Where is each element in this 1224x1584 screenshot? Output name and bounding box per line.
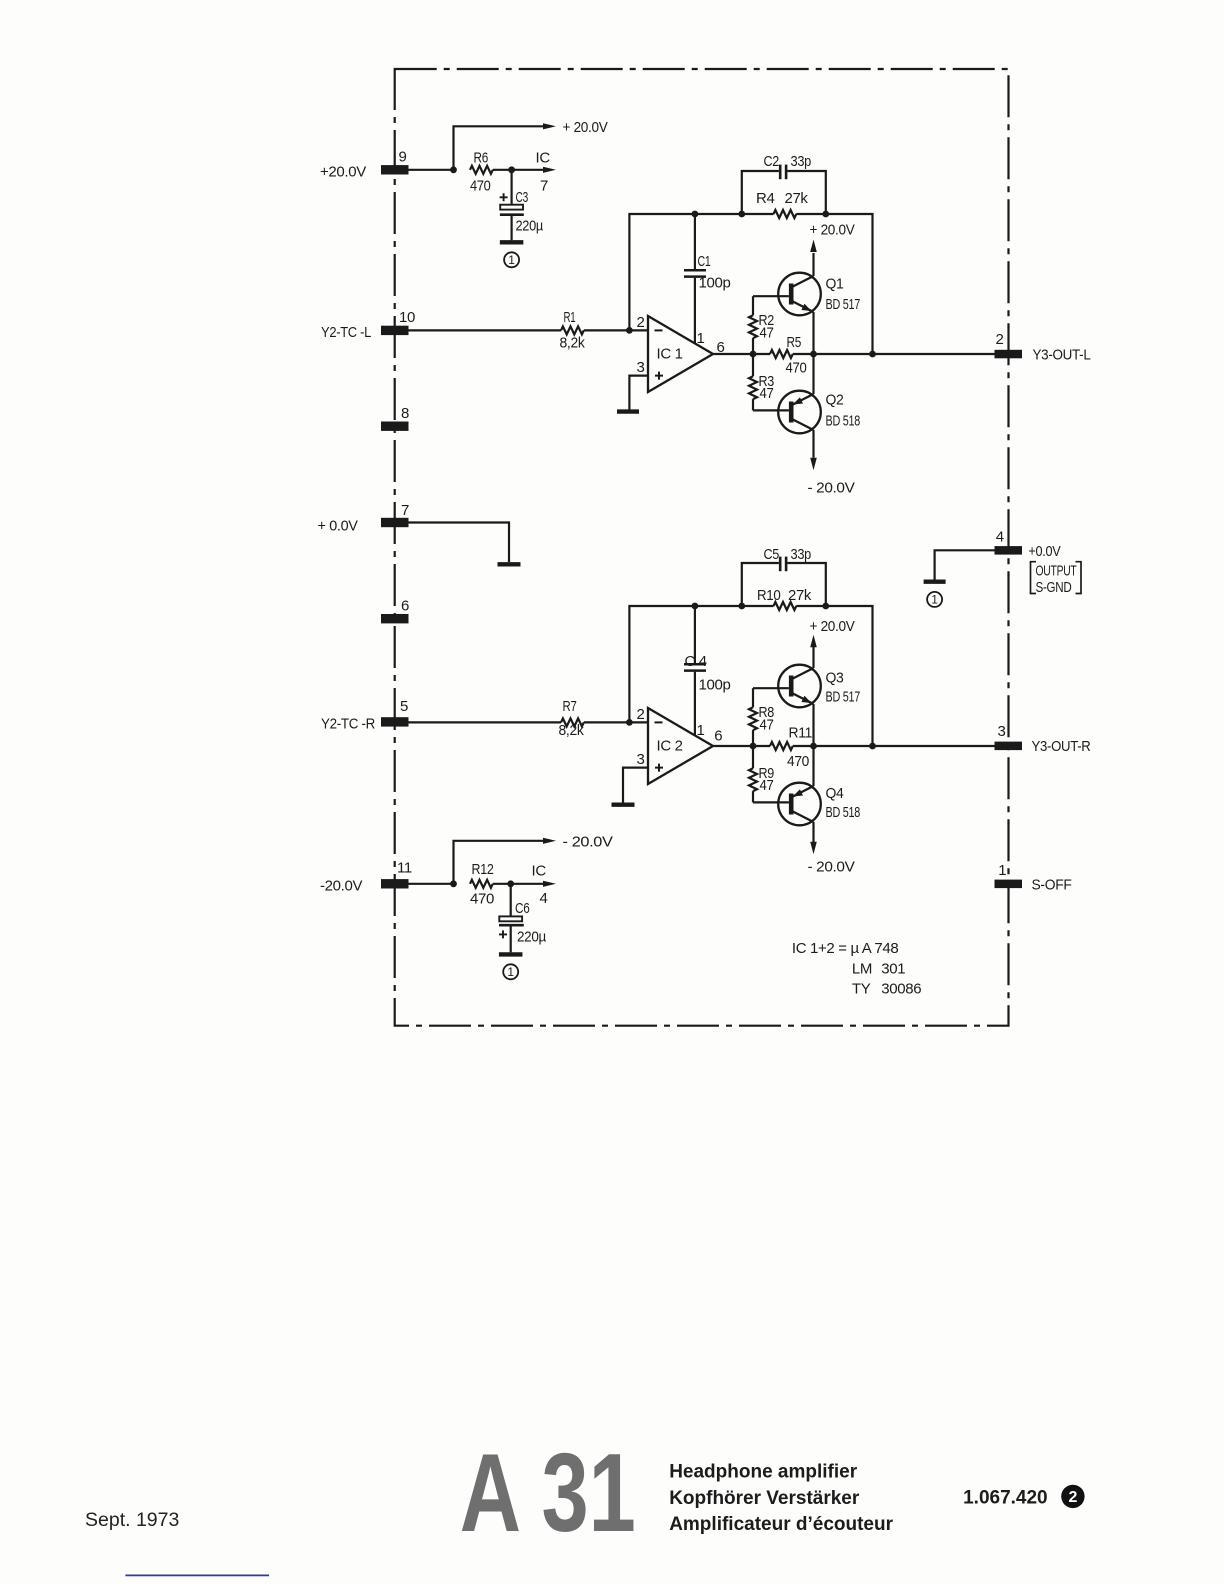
node junction R8/R9/R11 xyxy=(750,743,757,750)
pin 9 (+20.0V supply in) xyxy=(381,165,409,174)
svg-text:6: 6 xyxy=(401,597,409,614)
svg-text:27k: 27k xyxy=(785,190,809,207)
svg-text:30086: 30086 xyxy=(881,980,921,997)
svg-text:2: 2 xyxy=(996,331,1004,348)
wire Q4 base xyxy=(753,801,789,803)
wire R5 to output pin 2 xyxy=(793,353,995,355)
svg-text:Headphone amplifier: Headphone amplifier xyxy=(669,1462,858,1483)
arrow +20.0V rail (Q3) xyxy=(810,635,817,648)
svg-text:470: 470 xyxy=(470,891,494,908)
svg-text:OUTPUT: OUTPUT xyxy=(1036,563,1077,580)
svg-text:100p: 100p xyxy=(699,677,731,694)
wire C3 to ground xyxy=(511,216,513,240)
wire pin5 to R7 xyxy=(409,721,562,723)
resistor R3 47 xyxy=(752,354,754,376)
ground (IC2 pin3) xyxy=(612,803,635,807)
svg-text:S-OFF: S-OFF xyxy=(1032,877,1072,894)
wire Q2 base xyxy=(753,409,789,411)
svg-text:+0.0V: +0.0V xyxy=(1028,543,1060,560)
svg-text:IC 1+2 = µ A 748: IC 1+2 = µ A 748 xyxy=(792,940,898,957)
node junction R2/R3/R5 xyxy=(750,351,757,358)
note circle 1 (C6 ground) xyxy=(503,964,518,979)
node junction R10 right xyxy=(822,603,829,610)
wire Q1 base xyxy=(753,295,789,297)
pin 11 (-20.0V supply in) xyxy=(381,879,409,888)
wire R10/C5 to output node xyxy=(826,606,873,746)
wire Q2 collector riser xyxy=(812,430,814,458)
svg-text:Y3-OUT-L: Y3-OUT-L xyxy=(1033,347,1091,364)
wire riser to -20.0V flag xyxy=(454,841,544,884)
svg-text:A 31: A 31 xyxy=(460,1431,636,1555)
node junction C4 top xyxy=(692,603,699,610)
svg-text:470: 470 xyxy=(470,178,491,195)
svg-text:3: 3 xyxy=(637,751,645,768)
note circle 1 (pin4 ground) xyxy=(927,592,942,607)
wire IC1 output line xyxy=(713,353,770,355)
svg-text:Q4: Q4 xyxy=(826,785,844,802)
svg-text:3: 3 xyxy=(637,359,645,376)
svg-text:47: 47 xyxy=(760,385,774,402)
transistor Q3 BD 517 xyxy=(778,665,821,708)
svg-text:2: 2 xyxy=(1068,1489,1077,1506)
svg-text:33p: 33p xyxy=(791,546,812,563)
svg-text:+ 20.0V: + 20.0V xyxy=(563,119,608,136)
pin 10 (Y2-TC-L input) xyxy=(381,326,409,335)
svg-text:R12: R12 xyxy=(472,861,494,878)
svg-text:C1: C1 xyxy=(698,253,711,270)
svg-text:Y3-OUT-R: Y3-OUT-R xyxy=(1032,738,1091,755)
wire Q3 base xyxy=(753,687,789,689)
arrow -20.0V supply flag xyxy=(543,838,556,844)
svg-text:301: 301 xyxy=(881,961,905,978)
wire riser to +20.0V flag xyxy=(454,126,544,170)
pin 2 (Y3-OUT-L) xyxy=(995,350,1023,359)
svg-text:1: 1 xyxy=(508,253,515,267)
svg-text:BD 518: BD 518 xyxy=(826,804,861,821)
wire C6 to ground xyxy=(510,926,512,952)
svg-text:Kopfhörer Verstärker: Kopfhörer Verstärker xyxy=(669,1488,860,1509)
svg-text:11: 11 xyxy=(397,859,412,876)
svg-text:1: 1 xyxy=(998,862,1006,879)
svg-text:+20.0V: +20.0V xyxy=(320,164,366,181)
resistor R6 xyxy=(470,166,493,174)
svg-text:Y2-TC -L: Y2-TC -L xyxy=(321,324,371,341)
svg-text:+ 20.0V: + 20.0V xyxy=(810,222,855,239)
svg-text:1.067.420: 1.067.420 xyxy=(963,1488,1048,1509)
transistor Q1 BD 517 xyxy=(778,273,821,316)
svg-text:C 4: C 4 xyxy=(685,653,707,670)
svg-text:1: 1 xyxy=(931,593,938,607)
wire pin4 to ground xyxy=(935,550,995,579)
svg-text:TY: TY xyxy=(852,980,871,997)
svg-text:3: 3 xyxy=(998,723,1006,740)
svg-text:33p: 33p xyxy=(791,153,812,170)
wire Q3 emitter to output node xyxy=(812,704,814,746)
wire Q4 emitter to output node xyxy=(812,746,814,786)
svg-text:2: 2 xyxy=(637,314,645,331)
pin 8 (n.c.) xyxy=(381,422,409,431)
resistor R7 8,2k xyxy=(561,718,584,726)
capacitor C4 100p xyxy=(694,606,696,663)
svg-text:R11: R11 xyxy=(789,725,813,742)
svg-text:470: 470 xyxy=(787,753,809,770)
svg-text:220µ: 220µ xyxy=(516,218,544,235)
svg-text:Amplificateur d’écouteur: Amplificateur d’écouteur xyxy=(669,1514,893,1535)
svg-text:IC 1: IC 1 xyxy=(657,346,683,363)
svg-text:BD 517: BD 517 xyxy=(826,296,861,313)
op-amp IC1 xyxy=(648,316,713,392)
wire pin9 to node xyxy=(409,169,454,171)
svg-text:S-GND: S-GND xyxy=(1036,579,1072,596)
capacitor C6 (electrolytic 220u) xyxy=(510,884,512,916)
capacitor C5 33p xyxy=(742,563,779,606)
svg-text:R4: R4 xyxy=(756,190,774,207)
svg-text:9: 9 xyxy=(399,148,407,165)
resistor R1 8,2k xyxy=(561,326,584,334)
resistor R12 470 xyxy=(470,880,493,888)
svg-text:4: 4 xyxy=(540,890,548,907)
wire and arrow to IC pin 7 supply xyxy=(512,169,543,171)
resistor R5 470 xyxy=(770,350,793,358)
svg-text:C5: C5 xyxy=(764,546,780,563)
pin 4 (+0.0V output gnd) xyxy=(995,546,1023,555)
transistor Q4 BD 518 xyxy=(778,783,821,826)
svg-text:8,2k: 8,2k xyxy=(559,722,585,739)
resistor R11 470 xyxy=(770,742,793,750)
svg-text:LM: LM xyxy=(852,961,872,978)
pin 6 (n.c.) xyxy=(381,614,409,623)
arrow -20.0V rail (Q2) xyxy=(810,458,817,471)
resistor R10 27k xyxy=(742,605,774,607)
svg-text:Sept. 1973: Sept. 1973 xyxy=(85,1509,179,1531)
svg-text:C2: C2 xyxy=(764,153,780,170)
svg-text:BD 517: BD 517 xyxy=(826,689,861,706)
svg-text:1: 1 xyxy=(697,330,705,347)
badge page 2 xyxy=(1061,1485,1084,1508)
capacitor C3 (electrolytic 220u) xyxy=(511,170,513,205)
wire Q1 emitter to output node xyxy=(812,312,814,354)
svg-text:1: 1 xyxy=(697,722,705,739)
node junction at +20V rail split xyxy=(450,166,457,173)
transistor Q2 BD 518 xyxy=(778,391,821,434)
svg-text:R7: R7 xyxy=(563,698,577,715)
node junction R6/C3/IC7 xyxy=(508,166,515,173)
svg-text:47: 47 xyxy=(760,325,774,342)
wire pin11 to node xyxy=(409,883,454,885)
svg-text:Q2: Q2 xyxy=(826,392,844,409)
pin 7 (+0.0V ground in) xyxy=(381,518,409,527)
svg-text:4: 4 xyxy=(996,528,1004,545)
svg-text:7: 7 xyxy=(540,178,548,195)
svg-text:5: 5 xyxy=(400,698,408,715)
arrow -20.0V rail (Q4) xyxy=(810,842,817,855)
module boundary (dash-dot frame) xyxy=(395,69,1009,1026)
pin 1 (S-OFF) xyxy=(995,880,1023,889)
wire Q1 collector riser xyxy=(812,253,814,276)
svg-text:Y2-TC -R: Y2-TC -R xyxy=(321,716,375,733)
node junction R4 left xyxy=(738,211,745,218)
resistor R4 27k xyxy=(742,213,774,215)
svg-text:8: 8 xyxy=(401,405,409,422)
resistor R2 47 xyxy=(752,296,754,315)
node junction feedback/output (R) xyxy=(869,743,876,750)
wire R7 to IC2 pin2 xyxy=(584,721,648,723)
svg-text:47: 47 xyxy=(760,717,774,734)
svg-text:7: 7 xyxy=(401,502,409,519)
svg-text:47: 47 xyxy=(760,777,774,794)
svg-text:- 20.0V: - 20.0V xyxy=(808,859,855,876)
svg-text:100p: 100p xyxy=(699,275,731,292)
wire R12 to node xyxy=(493,883,511,885)
wire feedback riser (IC1) xyxy=(629,214,741,330)
svg-text:R5: R5 xyxy=(787,334,802,351)
wire pin7 to ground xyxy=(409,523,510,563)
wire and arrow to IC pin 4 supply xyxy=(511,883,543,885)
svg-text:Q3: Q3 xyxy=(826,670,844,687)
node junction C1 top xyxy=(692,211,699,218)
svg-text:IC: IC xyxy=(532,862,547,879)
node junction R4 right xyxy=(822,211,829,218)
wire R4/C2 to output node xyxy=(826,214,873,354)
svg-text:470: 470 xyxy=(786,360,807,377)
arrow +20.0V supply flag xyxy=(543,123,556,129)
wire IC2 pin3 to ground xyxy=(623,768,648,803)
bracket label OUTPUT / S-GND xyxy=(1031,562,1037,594)
svg-text:6: 6 xyxy=(714,728,722,745)
node junction inverting input (IC2) xyxy=(626,719,633,726)
node junction R12/C6/IC4 xyxy=(507,880,514,887)
node junction emitters (L) xyxy=(810,351,817,358)
ground (pin 4) xyxy=(924,580,946,584)
svg-text:- 20.0V: - 20.0V xyxy=(563,834,613,851)
wire feedback riser (IC2) xyxy=(629,606,741,722)
wire Q4 collector riser xyxy=(812,822,814,842)
resistor R8 47 xyxy=(752,688,754,707)
svg-text:2: 2 xyxy=(637,706,645,723)
svg-text:Q1: Q1 xyxy=(826,276,844,293)
svg-text:220µ: 220µ xyxy=(517,929,547,946)
capacitor C2 33p xyxy=(742,171,779,214)
node junction R10 left xyxy=(738,603,745,610)
ground (C6) xyxy=(499,952,523,956)
wire Q2 emitter to output node xyxy=(812,354,814,394)
wire Q3 collector riser xyxy=(812,647,814,668)
svg-text:R10: R10 xyxy=(757,587,781,604)
bottom blue rule xyxy=(125,1574,269,1576)
svg-text:- 20.0V: - 20.0V xyxy=(808,479,855,496)
pin 5 (Y2-TC-R input) xyxy=(381,717,409,726)
svg-text:+ 0.0V: + 0.0V xyxy=(318,517,358,534)
svg-text:27k: 27k xyxy=(788,587,812,604)
wire R11 to output pin 3 xyxy=(793,745,995,747)
op-amp IC2 xyxy=(648,708,713,784)
wire R1 to IC1 pin2 xyxy=(584,329,648,331)
svg-text:IC: IC xyxy=(536,149,551,166)
wire IC2 output line xyxy=(713,745,770,747)
node junction emitters (R) xyxy=(810,743,817,750)
svg-text:C3: C3 xyxy=(516,189,529,206)
note circle 1 (C3 ground) xyxy=(504,252,519,267)
svg-text:IC 2: IC 2 xyxy=(657,738,683,755)
capacitor C1 100p xyxy=(694,214,696,269)
svg-text:C6: C6 xyxy=(515,900,530,917)
ground (IC1 pin3) xyxy=(617,409,639,413)
svg-text:10: 10 xyxy=(399,309,415,326)
svg-text:8,2k: 8,2k xyxy=(560,335,586,352)
svg-text:1: 1 xyxy=(507,965,514,979)
wire IC1 pin3 to ground xyxy=(629,376,648,410)
svg-text:BD 518: BD 518 xyxy=(826,413,861,430)
pin 3 (Y3-OUT-R) xyxy=(995,742,1023,751)
arrow +20.0V rail (Q1) xyxy=(810,240,817,253)
svg-text:-20.0V: -20.0V xyxy=(320,878,362,895)
node junction feedback/output (L) xyxy=(869,351,876,358)
ground (C3) xyxy=(500,240,523,244)
resistor R9 47 xyxy=(752,746,754,768)
svg-text:R1: R1 xyxy=(564,309,576,326)
node junction at -20V rail split xyxy=(450,880,457,887)
wire pin10 to R1 xyxy=(409,329,562,331)
svg-text:R6: R6 xyxy=(474,149,489,166)
ground (pin 7) xyxy=(498,562,521,566)
wire R6 to node xyxy=(493,169,512,171)
svg-text:+ 20.0V: + 20.0V xyxy=(810,618,855,635)
node junction inverting input (IC1) xyxy=(626,327,633,334)
